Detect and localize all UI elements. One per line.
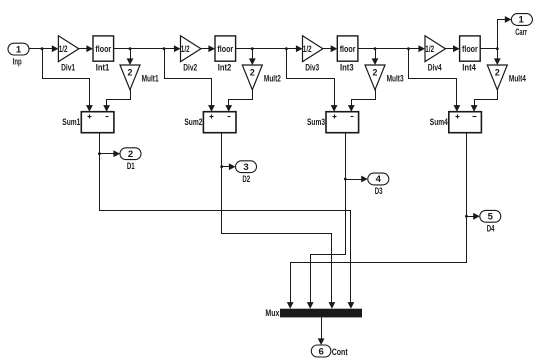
svg-text:Sum2: Sum2 — [184, 117, 202, 128]
wire up to Carr port — [498, 16, 512, 48]
wire Sum1 route to Mux — [100, 154, 355, 309]
label Carr — [515, 27, 527, 38]
label Int3 — [340, 63, 354, 74]
wire Mult1 to Sum1 minus — [103, 90, 130, 112]
svg-text:Div3: Div3 — [305, 63, 319, 74]
svg-text:Sum3: Sum3 — [307, 117, 325, 128]
floor block Int2 — [215, 36, 236, 61]
svg-text:Inp: Inp — [13, 56, 22, 67]
node junction B4 — [496, 47, 499, 50]
svg-text:Mux: Mux — [265, 308, 280, 319]
label Sum3 — [307, 117, 325, 128]
wire branch to Sum2 plus — [165, 49, 215, 112]
svg-text:Mult4: Mult4 — [509, 74, 526, 85]
sum block Sum1 — [81, 112, 114, 133]
svg-text:Mult3: Mult3 — [387, 74, 404, 85]
wire Int1 output to junction — [114, 48, 165, 50]
node junction J2 on main line — [163, 47, 166, 50]
svg-text:2: 2 — [250, 67, 255, 77]
label Sum2 — [184, 117, 202, 128]
svg-text:Mult1: Mult1 — [142, 74, 159, 85]
svg-text:6: 6 — [318, 346, 323, 357]
wire to Div2 — [165, 45, 181, 52]
input port 1 Inp — [8, 43, 29, 55]
wire down to Mult4 — [494, 49, 501, 66]
node junction B3 — [374, 47, 377, 50]
node junction J1 on main line — [41, 47, 44, 50]
label Mult1 — [142, 74, 159, 85]
output port 4 D3 — [368, 173, 389, 185]
gain block Mult3 (2) — [365, 65, 385, 90]
label D1 — [127, 161, 135, 172]
gain block Div3 (1/2) — [303, 36, 323, 62]
svg-text:floor: floor — [95, 44, 111, 54]
floor block Int1 — [93, 36, 114, 61]
label Cont — [332, 347, 349, 358]
node junction J4 on main line — [407, 47, 410, 50]
output port 3 D2 — [236, 161, 257, 173]
wire to Div3 — [287, 45, 303, 52]
wire Div2 to Int2 — [201, 45, 216, 52]
floor block Int3 — [337, 36, 358, 61]
svg-text:Int2: Int2 — [218, 63, 232, 74]
label Int4 — [462, 63, 476, 74]
sum block Sum3 — [326, 112, 359, 133]
svg-text:1/2: 1/2 — [59, 44, 68, 54]
wire branch to Sum1 plus — [43, 49, 93, 112]
label Div3 — [305, 63, 319, 74]
gain block Mult4 (2) — [487, 65, 507, 90]
wire to Div4 — [409, 45, 426, 52]
svg-text:2: 2 — [128, 149, 133, 160]
wire Mult4 to Sum4 minus — [471, 90, 498, 112]
wire Div1 to Int1 — [79, 45, 94, 52]
node junction D2 — [220, 165, 223, 168]
label Div4 — [428, 63, 442, 74]
mux block Mux — [280, 309, 362, 318]
label Sum4 — [430, 117, 448, 128]
wire Mult3 to Sum3 minus — [348, 90, 376, 112]
wire Sum1 output — [99, 133, 101, 154]
svg-text:5: 5 — [488, 212, 494, 223]
svg-text:1: 1 — [518, 15, 524, 26]
label Div2 — [183, 63, 197, 74]
label Int2 — [218, 63, 232, 74]
svg-text:Div1: Div1 — [61, 63, 75, 74]
wire to port D1 — [100, 150, 121, 157]
wire Int2 output to junction — [236, 48, 287, 50]
wire Inp to Div1 — [30, 48, 43, 50]
wire down to Mult1 — [127, 49, 134, 66]
svg-text:1/2: 1/2 — [181, 44, 190, 54]
node junction B1 — [129, 47, 132, 50]
svg-text:Carr: Carr — [515, 27, 527, 38]
svg-text:floor: floor — [217, 44, 233, 54]
wire Sum4 output — [466, 133, 468, 217]
wire Sum3 route to Mux — [307, 180, 346, 309]
gain block Div2 (1/2) — [181, 36, 201, 62]
svg-text:2: 2 — [373, 67, 378, 77]
wire Sum2 route to Mux — [222, 167, 336, 309]
node junction D1 — [98, 152, 101, 155]
svg-text:1/2: 1/2 — [303, 44, 312, 54]
label D4 — [487, 223, 495, 234]
wire branch to Sum3 plus — [287, 49, 338, 112]
node junction D3 — [344, 178, 347, 181]
svg-text:Div2: Div2 — [183, 63, 197, 74]
label Inp — [13, 56, 22, 67]
label Mult2 — [264, 74, 281, 85]
label D3 — [375, 186, 383, 197]
svg-text:Mult2: Mult2 — [264, 74, 281, 85]
label Mult3 — [387, 74, 404, 85]
wire Mux output to Cont — [318, 318, 325, 346]
wire Int4 output to junction — [481, 48, 498, 50]
label Mux — [265, 308, 280, 319]
svg-text:floor: floor — [340, 44, 356, 54]
node junction J3 on main line — [285, 47, 288, 50]
output port 5 D4 — [480, 210, 501, 222]
svg-text:3: 3 — [243, 162, 248, 173]
svg-text:Cont: Cont — [332, 347, 349, 358]
wire Int3 output to junction — [358, 48, 409, 50]
svg-text:4: 4 — [376, 174, 382, 185]
sum block Sum2 — [203, 112, 236, 133]
output port 1 Carr — [511, 14, 532, 26]
wire to Div1 — [43, 45, 59, 52]
sum block Sum4 — [449, 112, 482, 133]
svg-text:Sum1: Sum1 — [62, 117, 80, 128]
svg-text:D4: D4 — [487, 223, 495, 234]
gain block Mult2 (2) — [242, 65, 262, 90]
wire Div3 to Int3 — [323, 45, 338, 52]
svg-text:D3: D3 — [375, 186, 383, 197]
wire to port D3 — [346, 176, 368, 183]
label Sum1 — [62, 117, 80, 128]
output port 2 D1 — [120, 148, 141, 160]
label Int1 — [96, 63, 110, 74]
wire Div4 to Int4 — [446, 45, 460, 52]
wire to port D2 — [222, 163, 236, 170]
svg-text:Int1: Int1 — [96, 63, 110, 74]
svg-text:Sum4: Sum4 — [430, 117, 448, 128]
svg-text:Div4: Div4 — [428, 63, 442, 74]
floor block Int4 — [460, 36, 481, 61]
svg-text:2: 2 — [495, 67, 500, 77]
output port 6 Cont — [311, 345, 331, 357]
label Div1 — [61, 63, 75, 74]
wire Mult2 to Sum2 minus — [225, 90, 252, 112]
wire branch to Sum4 plus — [409, 49, 461, 112]
label D2 — [242, 174, 250, 185]
gain block Div4 (1/2) — [425, 36, 445, 62]
node junction D4 — [465, 215, 468, 218]
svg-text:floor: floor — [462, 44, 478, 54]
svg-text:Int3: Int3 — [340, 63, 354, 74]
svg-text:D2: D2 — [242, 174, 250, 185]
svg-text:Int4: Int4 — [462, 63, 476, 74]
wire Sum4 route to Mux — [287, 217, 467, 309]
wire to port D4 — [467, 213, 480, 220]
gain block Mult1 (2) — [120, 65, 140, 90]
wire down to Mult3 — [372, 49, 379, 66]
wire down to Mult2 — [249, 49, 256, 66]
node junction B2 — [251, 47, 254, 50]
svg-text:1/2: 1/2 — [425, 44, 434, 54]
wire Sum2 output — [221, 133, 223, 167]
svg-text:2: 2 — [128, 67, 133, 77]
svg-text:D1: D1 — [127, 161, 135, 172]
wire Sum3 output — [345, 133, 347, 180]
svg-text:1: 1 — [16, 44, 22, 55]
label Mult4 — [509, 74, 526, 85]
gain block Div1 (1/2) — [58, 36, 78, 62]
